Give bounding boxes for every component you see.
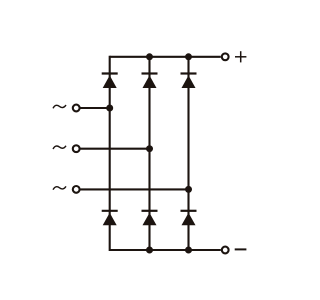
diode D2 upper xyxy=(142,74,158,89)
terminal + xyxy=(222,53,229,60)
label + xyxy=(235,51,246,62)
label ~ AC1 xyxy=(53,105,66,108)
wire column 2 vertical xyxy=(148,57,150,250)
junction AC2 / column 2 xyxy=(146,145,153,152)
junction AC1 / column 1 xyxy=(106,105,113,112)
diode D3 upper xyxy=(181,74,197,89)
terminal AC2 xyxy=(73,145,80,152)
wire AC input 1 xyxy=(80,107,109,109)
wire AC input 3 xyxy=(80,188,188,190)
terminal AC1 xyxy=(73,105,80,112)
diode D6 lower xyxy=(181,211,197,226)
terminal - xyxy=(222,247,229,254)
junction top rail / column 2 xyxy=(146,53,153,60)
terminal AC3 xyxy=(73,186,80,193)
junction AC3 / column 3 xyxy=(185,186,192,193)
junction bottom rail / column 3 xyxy=(185,247,192,254)
label ~ AC3 xyxy=(53,186,66,189)
junction bottom rail / column 2 xyxy=(146,247,153,254)
wire column 1 vertical xyxy=(109,56,111,251)
label ~ AC2 xyxy=(53,146,66,149)
diode D1 upper xyxy=(102,74,118,89)
label - xyxy=(235,248,247,250)
wire bottom (-) rail xyxy=(110,249,221,251)
wire top (+) rail xyxy=(110,56,221,58)
wire AC input 2 xyxy=(80,148,149,150)
diode D5 lower xyxy=(142,211,158,226)
diode D4 lower xyxy=(102,211,118,226)
wire column 3 vertical xyxy=(187,57,189,250)
junction top rail / column 3 xyxy=(185,53,192,60)
